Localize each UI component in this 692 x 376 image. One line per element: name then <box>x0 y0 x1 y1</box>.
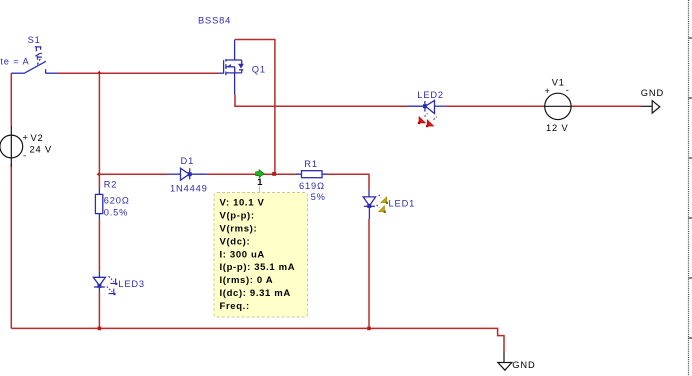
svg-text:V1: V1 <box>552 77 565 87</box>
LED1 junction blob <box>367 204 371 208</box>
LED3 junction blob <box>97 284 101 288</box>
wire: D1 cathode to R1 left <box>208 173 296 175</box>
LED2 junction blob <box>423 104 427 108</box>
LED1 emission arrows (lit, olive) <box>377 195 389 213</box>
svg-text:V2: V2 <box>31 133 44 143</box>
probe node 1 green arrow <box>256 170 265 178</box>
svg-text:0.5%: 0.5% <box>104 208 129 218</box>
svg-text:BSS84: BSS84 <box>198 16 231 26</box>
svg-text:12 V: 12 V <box>546 123 569 133</box>
wire: left vertical from switch down to V2 plus <box>10 73 12 127</box>
svg-text:GND: GND <box>512 360 535 370</box>
resistor R1 <box>296 171 328 178</box>
svg-text:I(rms): 0 A: I(rms): 0 A <box>220 275 274 286</box>
svg-text:LED2: LED2 <box>417 90 444 100</box>
svg-text:-: - <box>23 151 27 161</box>
diode D1 <box>168 168 208 180</box>
wire: top net from switch S1 to Q1 gate (red) <box>58 72 219 74</box>
svg-text:619Ω: 619Ω <box>299 181 325 191</box>
svg-text:R1: R1 <box>304 159 318 169</box>
probe leader line <box>258 186 260 194</box>
transistor Q1 (BSS84 p-MOSFET) <box>219 40 244 95</box>
wire: R2 branch vertical above R2 <box>98 174 100 188</box>
D1 junction blob <box>188 172 192 176</box>
source V1 <box>544 93 572 119</box>
wire: bottom ground rail <box>11 328 504 352</box>
wire: R2 bottom to LED3 top <box>98 219 100 271</box>
svg-text:Freq.:: Freq.: <box>220 301 250 312</box>
wire: Q1 drain loop top (red) <box>235 40 275 174</box>
ground GND bottom <box>498 352 512 370</box>
svg-text:V(rms):: V(rms): <box>220 223 258 234</box>
wire: R1 right to LED1 branch corner <box>328 174 369 190</box>
junction arrow left at node (99,174) <box>97 172 100 177</box>
sheet border ruler right edge <box>689 0 692 376</box>
svg-text:24 V: 24 V <box>30 145 53 155</box>
svg-text:1: 1 <box>257 177 263 187</box>
junction arrow up at node (99,73) <box>97 71 102 74</box>
wire: horizontal net from node (99,174) to D1 anode <box>99 173 167 175</box>
measurement tooltip box <box>214 193 308 318</box>
switch S1 key icon <box>35 47 42 60</box>
svg-text:Q1: Q1 <box>252 64 266 74</box>
svg-text:R2: R2 <box>104 180 118 190</box>
svg-text:D1: D1 <box>181 156 195 166</box>
svg-text:V: 10.1 V: V: 10.1 V <box>220 197 265 208</box>
LED3 emission arrows (off, outline) <box>107 276 118 295</box>
svg-text:V(dc):: V(dc): <box>220 236 251 247</box>
svg-text:+: + <box>545 86 551 96</box>
svg-text:I: 300 uA: I: 300 uA <box>220 249 265 260</box>
junction dot at (369,328.4) <box>367 327 371 331</box>
svg-text:I(p-p): 35.1 mA: I(p-p): 35.1 mA <box>220 262 296 273</box>
wire: V1 to GND arrow <box>572 105 641 107</box>
wire: LED1 bottom to ground rail <box>368 219 370 328</box>
LED2 <box>408 100 445 113</box>
Q1 channel arrow <box>227 64 231 67</box>
LED2 emission arrows (lit, red) <box>418 114 437 128</box>
svg-text:1N4449: 1N4449 <box>170 183 208 193</box>
resistor R2 <box>95 189 102 220</box>
wire: Q1 source down and right rail to GND (red) <box>235 95 408 107</box>
Q1 body diode mark <box>239 65 243 69</box>
svg-text:I(dc): 9.31 mA: I(dc): 9.31 mA <box>220 288 291 299</box>
svg-text:GND: GND <box>641 88 664 98</box>
wire: LED2 to V1 <box>445 105 544 107</box>
LED3 <box>93 271 105 293</box>
junction dot at (99.4,328.4) <box>98 327 102 331</box>
svg-text:LED3: LED3 <box>118 279 145 289</box>
svg-text:5%: 5% <box>311 192 326 202</box>
svg-text:+: + <box>23 133 29 143</box>
ground GND right (arrow style) <box>641 101 660 114</box>
svg-text:V(p-p):: V(p-p): <box>220 210 255 221</box>
wire: V2 minus down to bottom rail <box>10 164 12 328</box>
wire: LED3 bottom to ground rail <box>98 293 100 329</box>
svg-text:-: - <box>566 85 570 95</box>
svg-text:LED1: LED1 <box>389 198 416 208</box>
svg-text:ste = A: ste = A <box>0 57 30 67</box>
LED1 <box>363 191 375 220</box>
switch S1 <box>11 59 58 74</box>
junction dot at (274.9,173.8) <box>272 172 276 176</box>
svg-text:S1: S1 <box>28 35 41 45</box>
source V2 <box>0 127 23 167</box>
svg-text:620Ω: 620Ω <box>104 196 130 206</box>
wire: middle vertical from switch net down to R2 branch node <box>98 73 100 174</box>
